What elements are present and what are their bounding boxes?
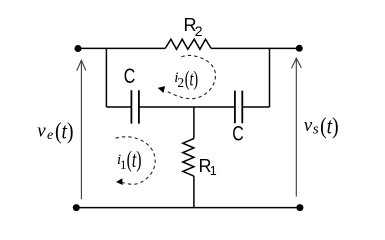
svg-text:(t): (t) xyxy=(55,119,74,144)
svg-text:(t): (t) xyxy=(127,147,142,172)
capacitor C right xyxy=(235,91,242,124)
wire bottom xyxy=(76,207,300,209)
wire top right xyxy=(211,47,299,49)
arrow vs head xyxy=(292,58,302,68)
wire cap row left xyxy=(106,106,131,108)
mesh arrowhead i2 xyxy=(157,85,165,93)
node bottom-right xyxy=(296,204,303,211)
wire top left xyxy=(77,47,165,49)
svg-text:1: 1 xyxy=(120,157,127,172)
svg-text:C: C xyxy=(124,65,136,88)
arrow ve head xyxy=(77,60,86,71)
resistor R2 xyxy=(165,39,211,49)
wire cap row right xyxy=(242,106,269,108)
node top-right xyxy=(296,45,303,52)
node bottom-left xyxy=(73,204,80,211)
svg-text:v: v xyxy=(37,120,46,141)
capacitor C left xyxy=(131,90,139,123)
arrow vs shaft xyxy=(295,58,297,196)
svg-text:C: C xyxy=(232,122,244,145)
mesh arc i1 xyxy=(116,137,156,185)
wire right branch xyxy=(269,48,271,107)
svg-text:e: e xyxy=(47,128,53,143)
svg-text:v: v xyxy=(304,115,313,136)
svg-text:2: 2 xyxy=(177,75,184,90)
svg-text:2: 2 xyxy=(195,23,203,39)
wire R1 bottom xyxy=(193,176,195,208)
svg-text:s: s xyxy=(313,121,319,137)
svg-text:1: 1 xyxy=(210,164,217,178)
mesh arc i2 xyxy=(166,55,216,98)
svg-text:(t): (t) xyxy=(185,66,199,90)
arrow ve shaft xyxy=(80,60,82,199)
wire R1 top xyxy=(193,107,195,139)
node top-left xyxy=(75,45,82,52)
svg-text:(t): (t) xyxy=(320,113,339,138)
resistor R1 xyxy=(183,139,194,177)
wire left branch xyxy=(105,48,107,107)
wire cap row middle xyxy=(139,106,235,108)
mesh arrowhead i1 xyxy=(116,178,123,185)
